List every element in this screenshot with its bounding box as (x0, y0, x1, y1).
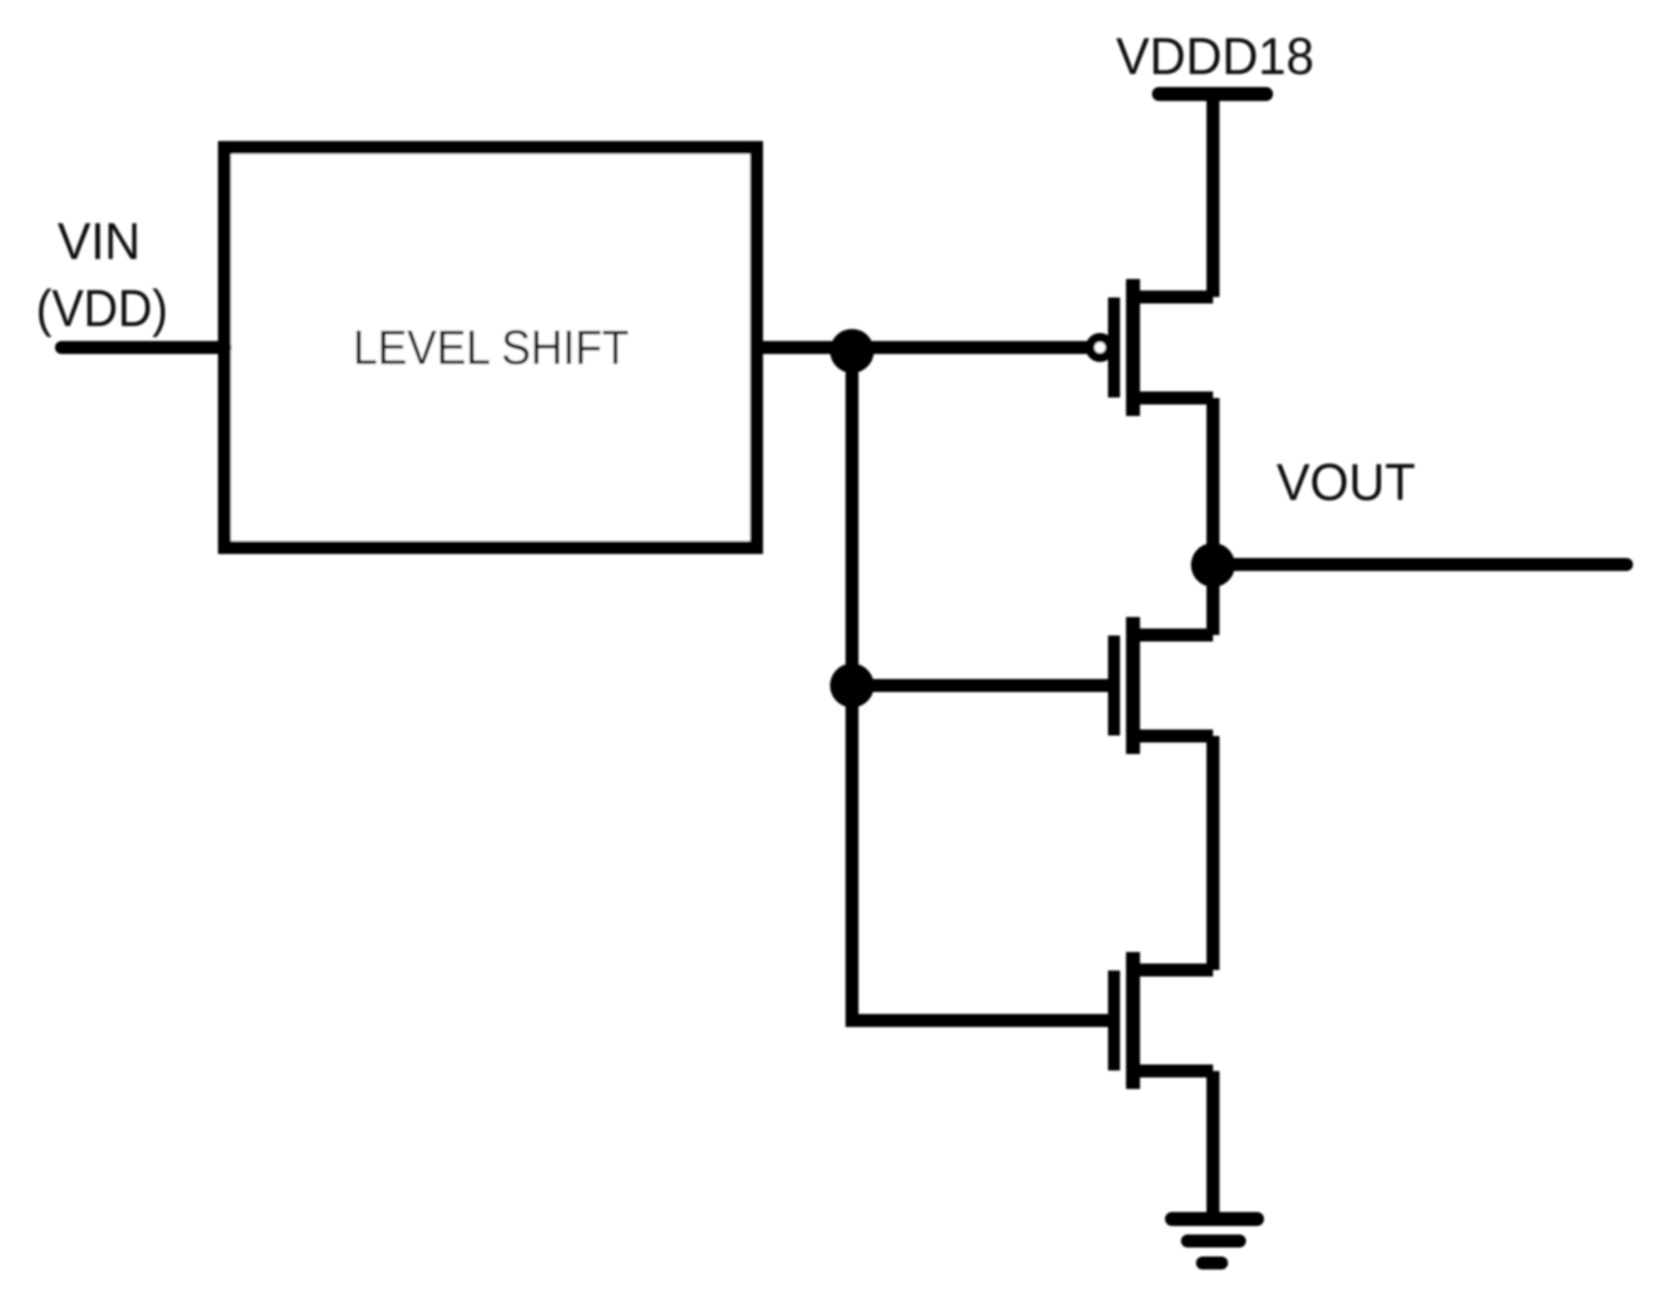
svg-text:VIN: VIN (58, 213, 141, 271)
svg-text:LEVEL SHIFT: LEVEL SHIFT (353, 322, 629, 375)
svg-text:VDDD18: VDDD18 (1116, 28, 1314, 86)
svg-text:(VDD): (VDD) (36, 280, 168, 338)
svg-text:VOUT: VOUT (1277, 454, 1416, 512)
